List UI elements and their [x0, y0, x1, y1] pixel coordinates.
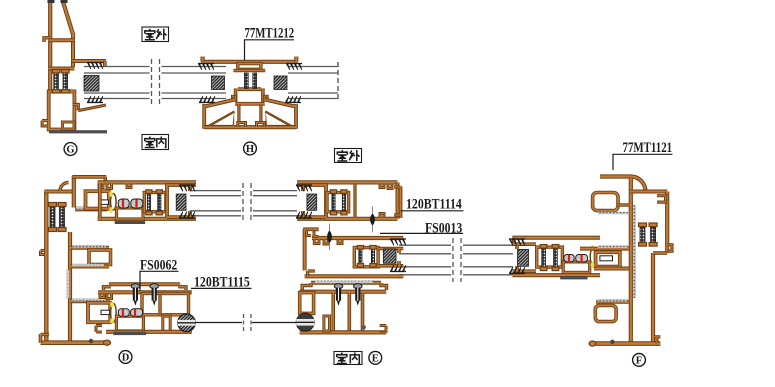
gasket E mid glass bottom: [390, 265, 406, 271]
glazing block E upper sash: [307, 194, 317, 210]
sliding sash near F: [512, 238, 619, 276]
yellow gaskets D upper: [109, 191, 113, 213]
yellow gaskets D lower: [110, 302, 114, 325]
svg-text:G: G: [66, 145, 74, 156]
countersunk screw E upper sash: [370, 207, 375, 233]
jamb profile left of D: [41, 176, 111, 345]
gasket E mid glass top: [390, 239, 406, 245]
dark dot on D bottom bar: [89, 339, 93, 343]
thermal break strips in H: [244, 73, 256, 88]
glass unit 4 between E and F with break: [399, 238, 513, 282]
glazing block F sash: [518, 249, 529, 266]
lower sash of D: [88, 284, 192, 332]
dark base F sash: [560, 276, 587, 279]
label FS0062 with leader: [140, 257, 179, 290]
thermal strips in D jamb: [49, 203, 67, 232]
thermal strips F sash: [540, 245, 559, 271]
glazing block E middle sash: [383, 249, 396, 263]
glass unit 2 right of H with end break: [288, 62, 338, 102]
svg-text:77MT1121: 77MT1121: [623, 140, 673, 156]
svg-text:E: E: [372, 353, 379, 364]
glazing block D upper sash: [176, 194, 186, 210]
section letter F: [633, 354, 646, 367]
gasket H cap left: [198, 64, 214, 70]
countersunk screw E middle sash: [327, 224, 332, 251]
glazing block H right: [274, 76, 287, 90]
outdoor label box top: [142, 27, 169, 42]
roller track line with break: [193, 314, 296, 331]
frame profile G: [42, 0, 106, 130]
lower interior box of E: [300, 283, 387, 333]
gasket H lower right: [285, 96, 301, 102]
glass unit 1 between G and H with break lines: [84, 59, 226, 105]
gasket H cap right: [286, 64, 302, 70]
screws E lower box: [334, 284, 362, 306]
label 120BT1114 with underline: [401, 197, 464, 213]
upper sash of E: [297, 182, 401, 218]
indoor label box left: [142, 135, 169, 150]
gasket F glass top: [509, 239, 525, 245]
dark base D upper: [115, 221, 145, 224]
mullion profile H: [201, 57, 298, 128]
red screws D lower: [123, 309, 135, 318]
dark dot on F foot: [610, 340, 614, 344]
jamb profile F: [580, 176, 672, 346]
svg-text:F: F: [636, 356, 642, 367]
glazing block H left: [212, 76, 225, 90]
screws D lower sash: [131, 284, 158, 306]
outdoor label box middle: [335, 149, 362, 163]
glazing spacer block at G: [84, 76, 99, 92]
dark base D lower: [113, 332, 146, 335]
roller wheel D lower: [178, 314, 196, 332]
roller lobes D upper: [118, 199, 143, 208]
section letter D: [119, 351, 132, 364]
red screws D upper: [123, 200, 137, 209]
thermal strips F jamb: [639, 223, 658, 246]
small dot E lower: [362, 325, 366, 329]
middle sash of E: [303, 229, 403, 276]
indoor label box bottom: [334, 352, 362, 365]
yellow gaskets F: [591, 245, 595, 268]
section letter G: [64, 143, 77, 156]
red screws F sash: [569, 255, 582, 264]
dot texture D arm1: [76, 206, 104, 209]
section letter H: [244, 142, 257, 155]
upper sash of D: [86, 182, 197, 219]
glazing gasket on G arm top: [87, 63, 103, 69]
dark sill strip under G: [49, 130, 107, 133]
section letter E: [369, 351, 382, 364]
dot texture under F upper box: [598, 212, 628, 215]
thermal strips E upper sash: [330, 190, 347, 215]
dot texture D arm4: [72, 298, 106, 301]
roller lobes F sash: [564, 255, 588, 262]
gasket F glass bottom: [509, 267, 525, 273]
gasket E upper glass bottom: [296, 212, 312, 218]
dot texture D right wall: [67, 270, 70, 298]
defs: [0, 0, 1, 1]
dot texture E lower top: [315, 281, 373, 283]
dot texture D mid arms: [72, 245, 106, 266]
dot texture F jamb arms: [598, 245, 628, 301]
svg-text:120BT1114: 120BT1114: [406, 197, 462, 213]
thermal break strips in G: [52, 70, 69, 94]
label 120BT1115 with underline: [191, 275, 252, 291]
svg-text:D: D: [122, 353, 130, 364]
thermal strips D upper sash: [146, 190, 163, 215]
gasket D upper glass top: [179, 185, 195, 191]
label FS0013 with underline: [380, 220, 463, 236]
label 77MT1212 with leader line: [245, 26, 295, 61]
thermal strips E middle sash: [357, 246, 376, 268]
glazing gasket on G bottom: [87, 96, 103, 102]
gasket D upper glass bottom: [179, 212, 195, 218]
svg-text:H: H: [246, 144, 254, 155]
roller wheel E lower: [296, 313, 314, 331]
gasket E upper glass top: [296, 185, 312, 191]
dot texture F jamb wall: [633, 205, 636, 298]
gasket H lower left: [199, 96, 215, 102]
label 77MT1121 with leader: [613, 140, 673, 170]
roller lobes D lower: [118, 309, 142, 317]
svg-text:77MT1212: 77MT1212: [245, 26, 295, 42]
glass unit 3 between D and E sashes with break: [190, 183, 297, 222]
